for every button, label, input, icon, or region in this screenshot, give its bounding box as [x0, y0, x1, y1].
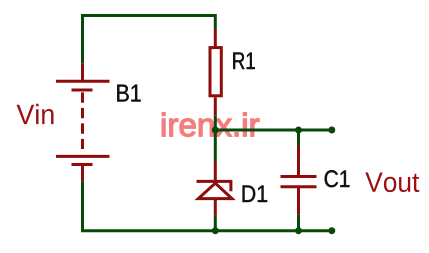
capacitor C1 pin bottom (red): [297, 187, 300, 215]
label R1: [233, 53, 255, 70]
junction node C1 top: [295, 127, 302, 134]
label B1: [117, 85, 140, 102]
capacitor C1 plate bottom: [281, 185, 317, 188]
zener diode D1 cathode bar with bend: [197, 181, 231, 191]
wire: top rail to C1 top: [297, 130, 300, 146]
junction node D1 bottom: [212, 227, 219, 234]
resistor R1 pin top (red): [214, 29, 217, 47]
zener diode D1 pin top (red): [214, 162, 217, 182]
junction node C1 bottom: [295, 227, 302, 234]
wire: bottom rail: [81, 229, 332, 232]
battery B1 short plate bottom: [72, 163, 93, 166]
wire: D1 bottom to bottom rail: [214, 216, 217, 231]
battery B1 long plate top: [56, 80, 110, 83]
zener diode D1 pin bottom (red): [214, 199, 217, 215]
terminal node Vout top: [328, 127, 335, 134]
label D1: [243, 186, 268, 203]
battery B1 dashed cell link: [81, 92, 84, 149]
battery B1 pin bottom (red): [81, 165, 84, 182]
terminal node Vout bottom: [328, 227, 335, 234]
wire: R1 bottom through junction to D1 top: [214, 116, 217, 162]
zener diode D1 triangle: [198, 183, 232, 198]
wire: C1 bottom to bottom rail: [297, 215, 300, 231]
label Vout: [365, 173, 419, 193]
wire: top rail from battery top corner to R1 top: [83, 16, 216, 64]
capacitor C1 plate top: [281, 175, 317, 178]
resistor R1 body: [210, 48, 221, 96]
capacitor C1 pin top (red): [297, 146, 300, 177]
watermark irenx.ir: [162, 113, 259, 137]
battery B1 long plate bottom: [56, 155, 110, 158]
battery B1 short plate top: [72, 89, 93, 92]
resistor R1 pin bottom (red): [214, 97, 217, 115]
wire: top right rail junction to output terminal: [215, 129, 331, 132]
label Vin: [17, 104, 54, 124]
battery B1 pin top (red): [81, 63, 84, 81]
junction node R1/D1/C1 top: [212, 127, 219, 134]
wire: battery bottom to bottom rail: [81, 181, 84, 230]
label C1: [325, 170, 350, 187]
